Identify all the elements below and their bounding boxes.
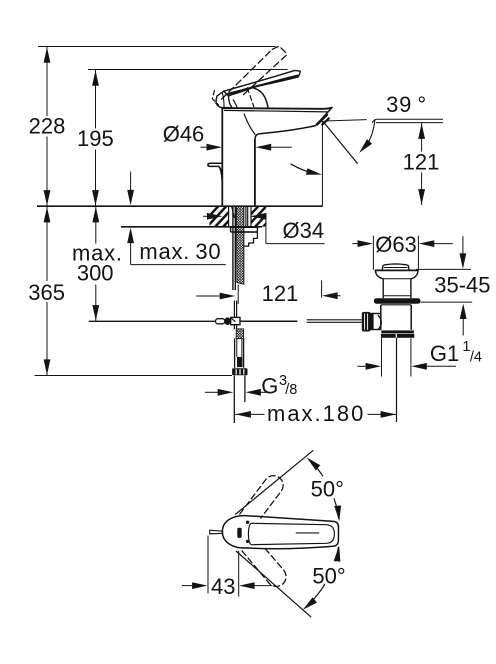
- handle pivot housing: [216, 91, 232, 107]
- dim 63 left ext line: [372, 236, 374, 270]
- pop-up rod tip: [210, 530, 223, 534]
- pop-up rod sheath: [232, 206, 234, 290]
- faucet spout top edge: [222, 108, 331, 109]
- drain flange top: [375, 269, 418, 271]
- handle rotated up (dashed): [240, 476, 283, 518]
- valve stem block: [237, 357, 243, 367]
- raised handle tip (dashed): [272, 46, 287, 54]
- arrow 365 top: [44, 207, 51, 223]
- svg-text:300: 300: [77, 261, 114, 286]
- rod pivot end cap: [216, 319, 225, 324]
- handle blade lower edge: [227, 76, 297, 95]
- swing arc lower b: [311, 584, 324, 602]
- shank flare curve: [232, 207, 235, 218]
- swing boundary ray up: [235, 450, 313, 514]
- drain collar upper ring: [381, 330, 414, 333]
- max.30 upper arrow: [130, 172, 132, 193]
- arrow 195 bottom: [92, 190, 99, 206]
- swing arc upper a: [311, 461, 323, 476]
- dimension line 365: [46, 206, 48, 281]
- max.30 lower arrow and leader: [130, 241, 132, 265]
- svg-text:228: 228: [29, 114, 66, 139]
- dim 63 right arrow: [432, 243, 453, 245]
- horizontal rod left part: [89, 320, 216, 322]
- faucet body left edge: [221, 107, 223, 205]
- 43 left arrow: [182, 585, 194, 587]
- 43 right arrow: [252, 585, 272, 587]
- flow direction arc: [291, 164, 313, 173]
- pop-up knob curve 2: [220, 167, 223, 184]
- handle top view outline: [222, 516, 338, 549]
- drain body sides: [380, 305, 382, 330]
- pop-up knob bar: [208, 163, 222, 166]
- arrow max.180 left: [235, 411, 251, 418]
- dimension line 121 right: [421, 123, 423, 152]
- water stream incline line: [323, 121, 358, 164]
- dim 121 mid left arrow: [196, 295, 222, 297]
- arrow 195 top: [92, 70, 99, 86]
- dim 63 right ext line: [417, 236, 419, 270]
- datum line top (228 reference): [38, 46, 276, 48]
- pivot facet line: [222, 93, 224, 107]
- dim 46 left arrow: [201, 146, 209, 148]
- G1 1/4 right ext line: [410, 338, 412, 376]
- svg-text:Ø34: Ø34: [283, 218, 325, 243]
- aerator stripe 2: [322, 118, 330, 126]
- arrow 228 bottom: [44, 190, 51, 206]
- counter bottom surface line: [121, 226, 262, 228]
- 39deg arc: [361, 120, 375, 151]
- handle screw dot 2: [246, 540, 249, 543]
- svg-text:195: 195: [77, 126, 114, 151]
- svg-text:max.180: max.180: [267, 401, 365, 426]
- svg-text:43: 43: [211, 574, 235, 599]
- aerator level line: [325, 120, 367, 121]
- raised handle back end (dashed): [212, 91, 218, 105]
- svg-text:39 °: 39 °: [386, 92, 427, 117]
- cartridge cap seam: [230, 87, 255, 95]
- dim 121 mid right arrow: [335, 295, 340, 297]
- raised handle hidden neck line (dashed): [247, 88, 254, 107]
- faucet spout inner top line: [224, 110, 328, 112]
- rod clamp block: [231, 317, 240, 324]
- arrow 228 top: [44, 47, 51, 63]
- drain upper body sides: [382, 279, 384, 299]
- dimension line 228: [46, 47, 48, 117]
- 35-45 bottom arrow: [462, 317, 464, 336]
- threaded section 2: [236, 329, 243, 339]
- svg-text:/8: /8: [285, 382, 297, 398]
- aerator extension line: [321, 121, 323, 206]
- svg-text:50°: 50°: [312, 564, 345, 589]
- horizontal rod right part (lift rod): [307, 319, 362, 321]
- valve tube inner: [236, 339, 238, 357]
- threaded shank: [236, 206, 244, 284]
- counter hole right edge: [250, 207, 252, 227]
- handle top view inner contour: [248, 523, 334, 544]
- G3/8 nut: [232, 368, 247, 375]
- drain collar lower ring: [381, 334, 414, 338]
- mounting nut steps: [237, 232, 258, 246]
- drain flange joint line: [383, 278, 411, 280]
- mounting washer: [231, 227, 258, 232]
- faucet body right edge: [254, 139, 256, 205]
- swing arc upper b: [334, 499, 339, 519]
- svg-text:max. 30: max. 30: [139, 239, 221, 264]
- rod segment above cross: [233, 301, 235, 318]
- datum line (195 reference): [88, 69, 288, 71]
- neck left edge: [233, 100, 237, 108]
- rod thumb nut: [224, 317, 231, 325]
- 39deg bracket curve: [372, 119, 377, 122]
- svg-text:121: 121: [262, 281, 299, 306]
- svg-text:/4: /4: [470, 349, 482, 365]
- drain body top line: [381, 304, 411, 306]
- handle rotated down (dashed): [240, 549, 286, 587]
- aerator face: [316, 108, 332, 126]
- drain side port: [372, 313, 381, 315]
- G1 1/4 left ext line: [381, 338, 383, 376]
- dim 46 right arrow: [269, 146, 292, 148]
- counter hole left edge: [228, 207, 230, 227]
- aerator stripe 1: [317, 114, 328, 125]
- arrow max.180 right: [381, 411, 397, 418]
- dim 121 mid right ext: [321, 280, 323, 297]
- supply hose right edge: [244, 376, 246, 403]
- flow direction arrow: [306, 168, 322, 175]
- G3/8 right arrow: [259, 391, 270, 393]
- dim 34 left arrow: [203, 215, 210, 217]
- 39deg arc arrow: [359, 139, 372, 153]
- 35-45 top reference line: [416, 268, 471, 270]
- svg-text:Ø46: Ø46: [163, 122, 205, 147]
- 365 bottom reference line: [35, 375, 233, 377]
- shank tube right lines: [245, 207, 247, 227]
- drain flange left side: [375, 270, 383, 278]
- pop-up knob curve 1: [219, 166, 223, 176]
- 43 right ext line: [238, 551, 240, 597]
- swing boundary ray down: [236, 551, 311, 617]
- swing arc upper top arrow: [307, 457, 321, 470]
- arrow 121 right top: [418, 123, 425, 138]
- raised handle trailing edge (dashed): [244, 54, 288, 94]
- svg-text:G: G: [261, 374, 278, 399]
- 43 left ext line: [207, 536, 209, 594]
- pop-up rod (thin): [237, 285, 239, 305]
- dim 63 left arrow: [352, 243, 360, 245]
- counter cross-section hatching: [198, 206, 252, 229]
- drain port bore arc: [378, 315, 381, 329]
- drain knurled knob: [362, 312, 371, 332]
- G1 1/4 right arrow: [424, 365, 456, 367]
- arrow max.300 top: [92, 207, 99, 223]
- dimension line 195: [95, 70, 97, 129]
- svg-text:Ø63: Ø63: [375, 232, 417, 257]
- 35-45 bottom reference line: [421, 301, 473, 303]
- 35-45 top arrow: [462, 236, 464, 256]
- faucet spout underside: [255, 126, 316, 140]
- drain plug inner line: [384, 267, 408, 269]
- drain plug dome: [382, 264, 409, 270]
- G3/8 left arrow: [205, 391, 220, 393]
- svg-text:G1: G1: [430, 341, 459, 366]
- rod below clamp: [233, 325, 235, 329]
- arrow 121 right bottom: [418, 189, 425, 205]
- horizontal rod mid part: [240, 320, 297, 322]
- drain flange ring (black): [374, 298, 421, 303]
- swing arc lower a: [335, 547, 338, 561]
- dimension line max.300: [95, 206, 97, 243]
- swing arc lower bottom arrow: [303, 597, 317, 610]
- handle screw dot 1: [246, 521, 249, 524]
- 121 top reference line: [376, 122, 443, 124]
- dim 34 leader: [265, 216, 267, 243]
- handle blade outline: [224, 70, 300, 96]
- body-spout waist seam: [244, 114, 255, 134]
- svg-text:121: 121: [403, 150, 440, 175]
- drain flange right side: [411, 270, 418, 278]
- drain body shoulder line: [383, 295, 411, 297]
- swing arc upper bottom arrow: [334, 505, 341, 521]
- swing arc lower top arrow: [334, 546, 341, 562]
- valve tube outer: [234, 339, 236, 368]
- counter top surface line: [37, 205, 323, 207]
- dimension line max.180: [235, 413, 265, 415]
- handle centerline tick: [296, 532, 320, 534]
- svg-text:365: 365: [28, 280, 65, 305]
- G1 1/4 left arrow: [357, 365, 368, 367]
- arrow max.300 bottom: [92, 305, 99, 321]
- svg-text:35-45: 35-45: [434, 272, 490, 297]
- handle neck right edge: [253, 88, 268, 108]
- drain tailpipe line: [396, 338, 398, 422]
- dim 34 right arrow: [250, 215, 266, 217]
- supply hose left edge: [233, 376, 235, 424]
- svg-text:50°: 50°: [311, 477, 344, 502]
- 39deg bracket line: [377, 118, 443, 120]
- arrow 365 bottom: [44, 359, 51, 375]
- raised handle leading edge (dashed): [222, 49, 273, 99]
- handle logo pin: [237, 528, 241, 538]
